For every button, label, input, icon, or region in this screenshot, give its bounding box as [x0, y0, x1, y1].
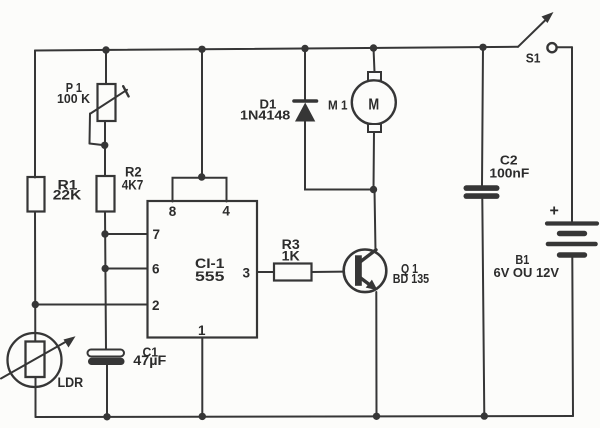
- svg-text:6V OU 12V: 6V OU 12V: [494, 265, 560, 280]
- svg-text:7: 7: [153, 227, 161, 242]
- wire pins 8-4 top bar: [173, 178, 227, 202]
- wire top rail: [35, 47, 518, 51]
- op-amp U1 CI-1 555: [148, 201, 258, 338]
- diode D1 1N4148: [240, 96, 317, 122]
- resistor R3: [274, 237, 312, 281]
- wire 555 supply: [201, 49, 203, 178]
- wire pin 7: [105, 233, 148, 235]
- transistor Q1 BD135: [344, 249, 429, 292]
- node pin7 junction: [101, 230, 108, 237]
- capacitor C1: [88, 345, 167, 368]
- battery B1: [494, 203, 598, 281]
- svg-text:2: 2: [152, 298, 160, 313]
- wire D1 bottom: [305, 122, 374, 190]
- wire P1 to R2: [104, 121, 106, 176]
- svg-text:M: M: [368, 96, 379, 113]
- svg-text:LDR: LDR: [58, 375, 84, 390]
- wire C2 top: [482, 47, 483, 185]
- wire left rail middle: [34, 212, 36, 342]
- wire M1 top: [374, 48, 375, 72]
- wire R2 down to C1: [105, 212, 106, 350]
- node Q1 emitter bottom rail junction: [373, 413, 380, 420]
- svg-text:1: 1: [198, 323, 206, 338]
- potentiometer P1: [57, 81, 129, 146]
- wire C2 bottom: [482, 199, 484, 416]
- node top rail M1 junction: [370, 44, 377, 51]
- svg-text:+: +: [550, 203, 559, 220]
- wire M1 bottom: [373, 132, 376, 190]
- svg-text:555: 555: [195, 268, 225, 284]
- wire Q1 collector: [375, 190, 376, 252]
- wire Q1 emitter down: [375, 292, 377, 416]
- svg-text:100 K: 100 K: [57, 92, 90, 106]
- svg-text:4K7: 4K7: [122, 177, 144, 192]
- svg-text:1N4148: 1N4148: [240, 107, 290, 122]
- node P1 wiper junction: [101, 142, 108, 149]
- resistor R1: [28, 177, 82, 212]
- node 555 pins 8-4 bar junction: [198, 173, 205, 180]
- wire right rail upper: [571, 47, 573, 223]
- node pin2 junction on left rail: [32, 301, 39, 308]
- node pin6 junction: [102, 265, 109, 272]
- wire pin 2: [35, 304, 147, 306]
- svg-text:4: 4: [222, 204, 230, 219]
- capacitor C2 100nF: [464, 153, 530, 199]
- node D1-M1 junction: [370, 186, 377, 193]
- switch S1: [518, 12, 557, 66]
- svg-text:6: 6: [152, 262, 160, 277]
- wire right rail lower: [571, 258, 574, 417]
- wire left rail lower: [35, 377, 37, 417]
- wire bottom rail: [36, 416, 574, 417]
- wire P1 top: [105, 50, 107, 84]
- node C1 bottom rail junction: [103, 413, 110, 420]
- svg-text:8: 8: [169, 204, 177, 219]
- wire pin 3 to R3: [257, 271, 274, 273]
- wire S1 to right rail: [557, 46, 572, 48]
- svg-text:100nF: 100nF: [489, 165, 529, 180]
- LDR: [1, 333, 83, 390]
- svg-text:S1: S1: [526, 52, 541, 66]
- wire C1 bottom: [106, 365, 108, 417]
- wire D1 top: [304, 49, 306, 100]
- node top rail C2 junction: [479, 44, 486, 51]
- wire pin 6: [105, 268, 147, 270]
- svg-text:BD 135: BD 135: [393, 271, 429, 286]
- resistor R2: [97, 165, 144, 212]
- svg-text:M 1: M 1: [328, 98, 348, 113]
- svg-text:47µF: 47µF: [133, 353, 166, 368]
- node top rail P1 junction: [102, 46, 109, 53]
- node top rail 555 junction: [198, 46, 205, 53]
- node C2 bottom rail junction: [481, 412, 488, 419]
- wire left rail upper: [34, 51, 36, 178]
- node top rail D1 junction: [301, 45, 308, 52]
- motor M1: [328, 72, 396, 132]
- svg-text:3: 3: [243, 266, 251, 281]
- wire R3 to Q1 base: [312, 271, 356, 274]
- svg-text:1K: 1K: [282, 248, 300, 263]
- node pin1 bottom rail junction: [199, 413, 206, 420]
- wire pin 1: [201, 338, 203, 417]
- svg-text:22K: 22K: [53, 188, 82, 203]
